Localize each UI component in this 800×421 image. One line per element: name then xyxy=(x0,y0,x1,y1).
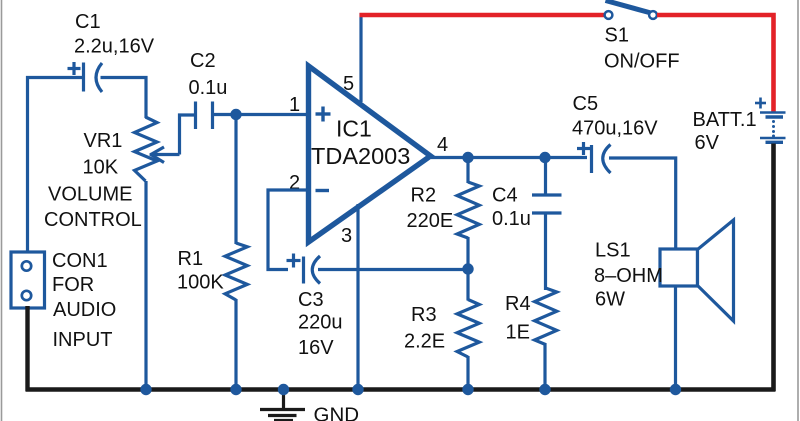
svg-text:CON1: CON1 xyxy=(52,250,108,272)
svg-text:3: 3 xyxy=(341,225,352,247)
svg-text:10K: 10K xyxy=(83,157,119,179)
capacitor C3 xyxy=(287,254,321,284)
svg-text:1E: 1E xyxy=(506,322,530,344)
svg-text:0.1u: 0.1u xyxy=(189,77,228,99)
svg-text:BATT.1: BATT.1 xyxy=(693,109,757,131)
svg-text:220u: 220u xyxy=(298,312,343,334)
wire: C1 right to VR1 top xyxy=(101,78,147,119)
svg-text:LS1: LS1 xyxy=(595,240,631,262)
wire: pin 3 down to bus xyxy=(356,204,359,390)
wire: VR1 bottom to bus xyxy=(144,181,147,390)
svg-text:S1: S1 xyxy=(605,25,629,47)
battery BATT.1 xyxy=(755,98,786,143)
node: bus VR1 xyxy=(140,384,151,395)
svg-text:5: 5 xyxy=(343,73,354,95)
power wire red: supply rail to switch xyxy=(360,13,605,18)
IC1 non-inverting input + mark xyxy=(316,107,331,122)
node: bus pin3 xyxy=(352,384,363,395)
svg-text:VR1: VR1 xyxy=(84,130,123,152)
capacitor C1 xyxy=(68,62,103,92)
wire: pin 4 output xyxy=(431,156,587,159)
svg-text:C3: C3 xyxy=(298,289,324,311)
wire: left input vertical (blue) xyxy=(26,76,29,253)
svg-text:FOR: FOR xyxy=(52,274,94,296)
potentiometer VR1 xyxy=(135,117,158,181)
ground xyxy=(260,391,305,421)
svg-text:IC1: IC1 xyxy=(336,116,372,142)
IC1 inverting input - mark xyxy=(316,189,330,192)
resistor R2 xyxy=(466,158,469,184)
svg-text:INPUT: INPUT xyxy=(53,329,113,351)
svg-text:100K: 100K xyxy=(177,272,224,294)
node: bus R4 xyxy=(539,384,550,395)
svg-text:2.2u,16V: 2.2u,16V xyxy=(74,36,155,58)
wire: C1 left horizontal xyxy=(26,76,84,79)
capacitor C2 xyxy=(196,102,213,130)
wire: C3 right to R2/R3 junction xyxy=(318,268,468,271)
switch S1 xyxy=(606,1,652,14)
wire: pin 5 up to supply xyxy=(359,13,362,102)
battery cell dots xyxy=(772,120,775,138)
ground bus (black) xyxy=(26,387,776,391)
svg-text:C2: C2 xyxy=(190,50,216,72)
op-amp IC1 triangle xyxy=(309,66,431,242)
svg-text:VOLUME: VOLUME xyxy=(48,184,132,206)
wire: R1 bottom to bus xyxy=(234,299,237,390)
svg-text:6W: 6W xyxy=(595,289,625,311)
node: bus R3 xyxy=(462,384,473,395)
resistor R4 xyxy=(535,288,557,345)
wire: C2 to IC pin 1 xyxy=(213,113,309,116)
resistor R1 xyxy=(225,243,247,300)
svg-text:C1: C1 xyxy=(75,11,101,33)
svg-text:2.2E: 2.2E xyxy=(404,331,445,353)
VR1 wiper arrow xyxy=(150,115,196,163)
svg-text:R1: R1 xyxy=(178,248,204,270)
node: bus R1 xyxy=(230,384,241,395)
node: output / C4 xyxy=(539,152,550,163)
svg-text:0.1u: 0.1u xyxy=(492,208,531,230)
speaker LS1 xyxy=(660,249,698,286)
svg-text:8–OHM: 8–OHM xyxy=(594,265,663,287)
svg-text:C4: C4 xyxy=(492,185,518,207)
svg-text:220E: 220E xyxy=(407,210,454,232)
capacitor C5 xyxy=(577,142,611,173)
connector CON1 xyxy=(11,252,45,308)
node: R2/R3/C3 junction xyxy=(462,263,473,274)
resistor R3 xyxy=(466,269,469,301)
svg-text:4: 4 xyxy=(437,134,448,156)
wire: C5 to speaker xyxy=(609,158,676,250)
svg-text:R4: R4 xyxy=(505,293,531,315)
wire: pin 2 to C3 xyxy=(268,190,308,270)
node: bus speaker xyxy=(670,384,681,395)
border right xyxy=(797,0,799,421)
svg-text:GND: GND xyxy=(314,404,360,421)
svg-text:AUDIO: AUDIO xyxy=(53,299,116,321)
power wire red: switch to battery xyxy=(657,15,774,112)
svg-text:470u,16V: 470u,16V xyxy=(572,118,658,140)
capacitor C4 xyxy=(544,158,547,196)
svg-text:6V: 6V xyxy=(695,132,720,154)
node: bus GND xyxy=(278,384,289,395)
svg-text:C5: C5 xyxy=(573,93,599,115)
wire: speaker bottom to bus xyxy=(674,286,677,390)
svg-text:ON/OFF: ON/OFF xyxy=(604,51,680,73)
node: output / R2 xyxy=(462,152,473,163)
border left xyxy=(1,0,3,421)
svg-text:CONTROL: CONTROL xyxy=(44,209,142,231)
wire: battery negative to bus (black) xyxy=(771,144,776,392)
svg-text:R2: R2 xyxy=(411,185,437,207)
node: junction C2/R1 xyxy=(230,109,241,120)
svg-text:TDA2003: TDA2003 xyxy=(311,143,410,169)
svg-text:R3: R3 xyxy=(411,304,437,326)
wire: junction down to R1 xyxy=(234,115,237,245)
wire: CON1 to bus (black) xyxy=(25,306,29,391)
svg-text:16V: 16V xyxy=(298,337,334,359)
svg-text:1: 1 xyxy=(289,94,300,116)
